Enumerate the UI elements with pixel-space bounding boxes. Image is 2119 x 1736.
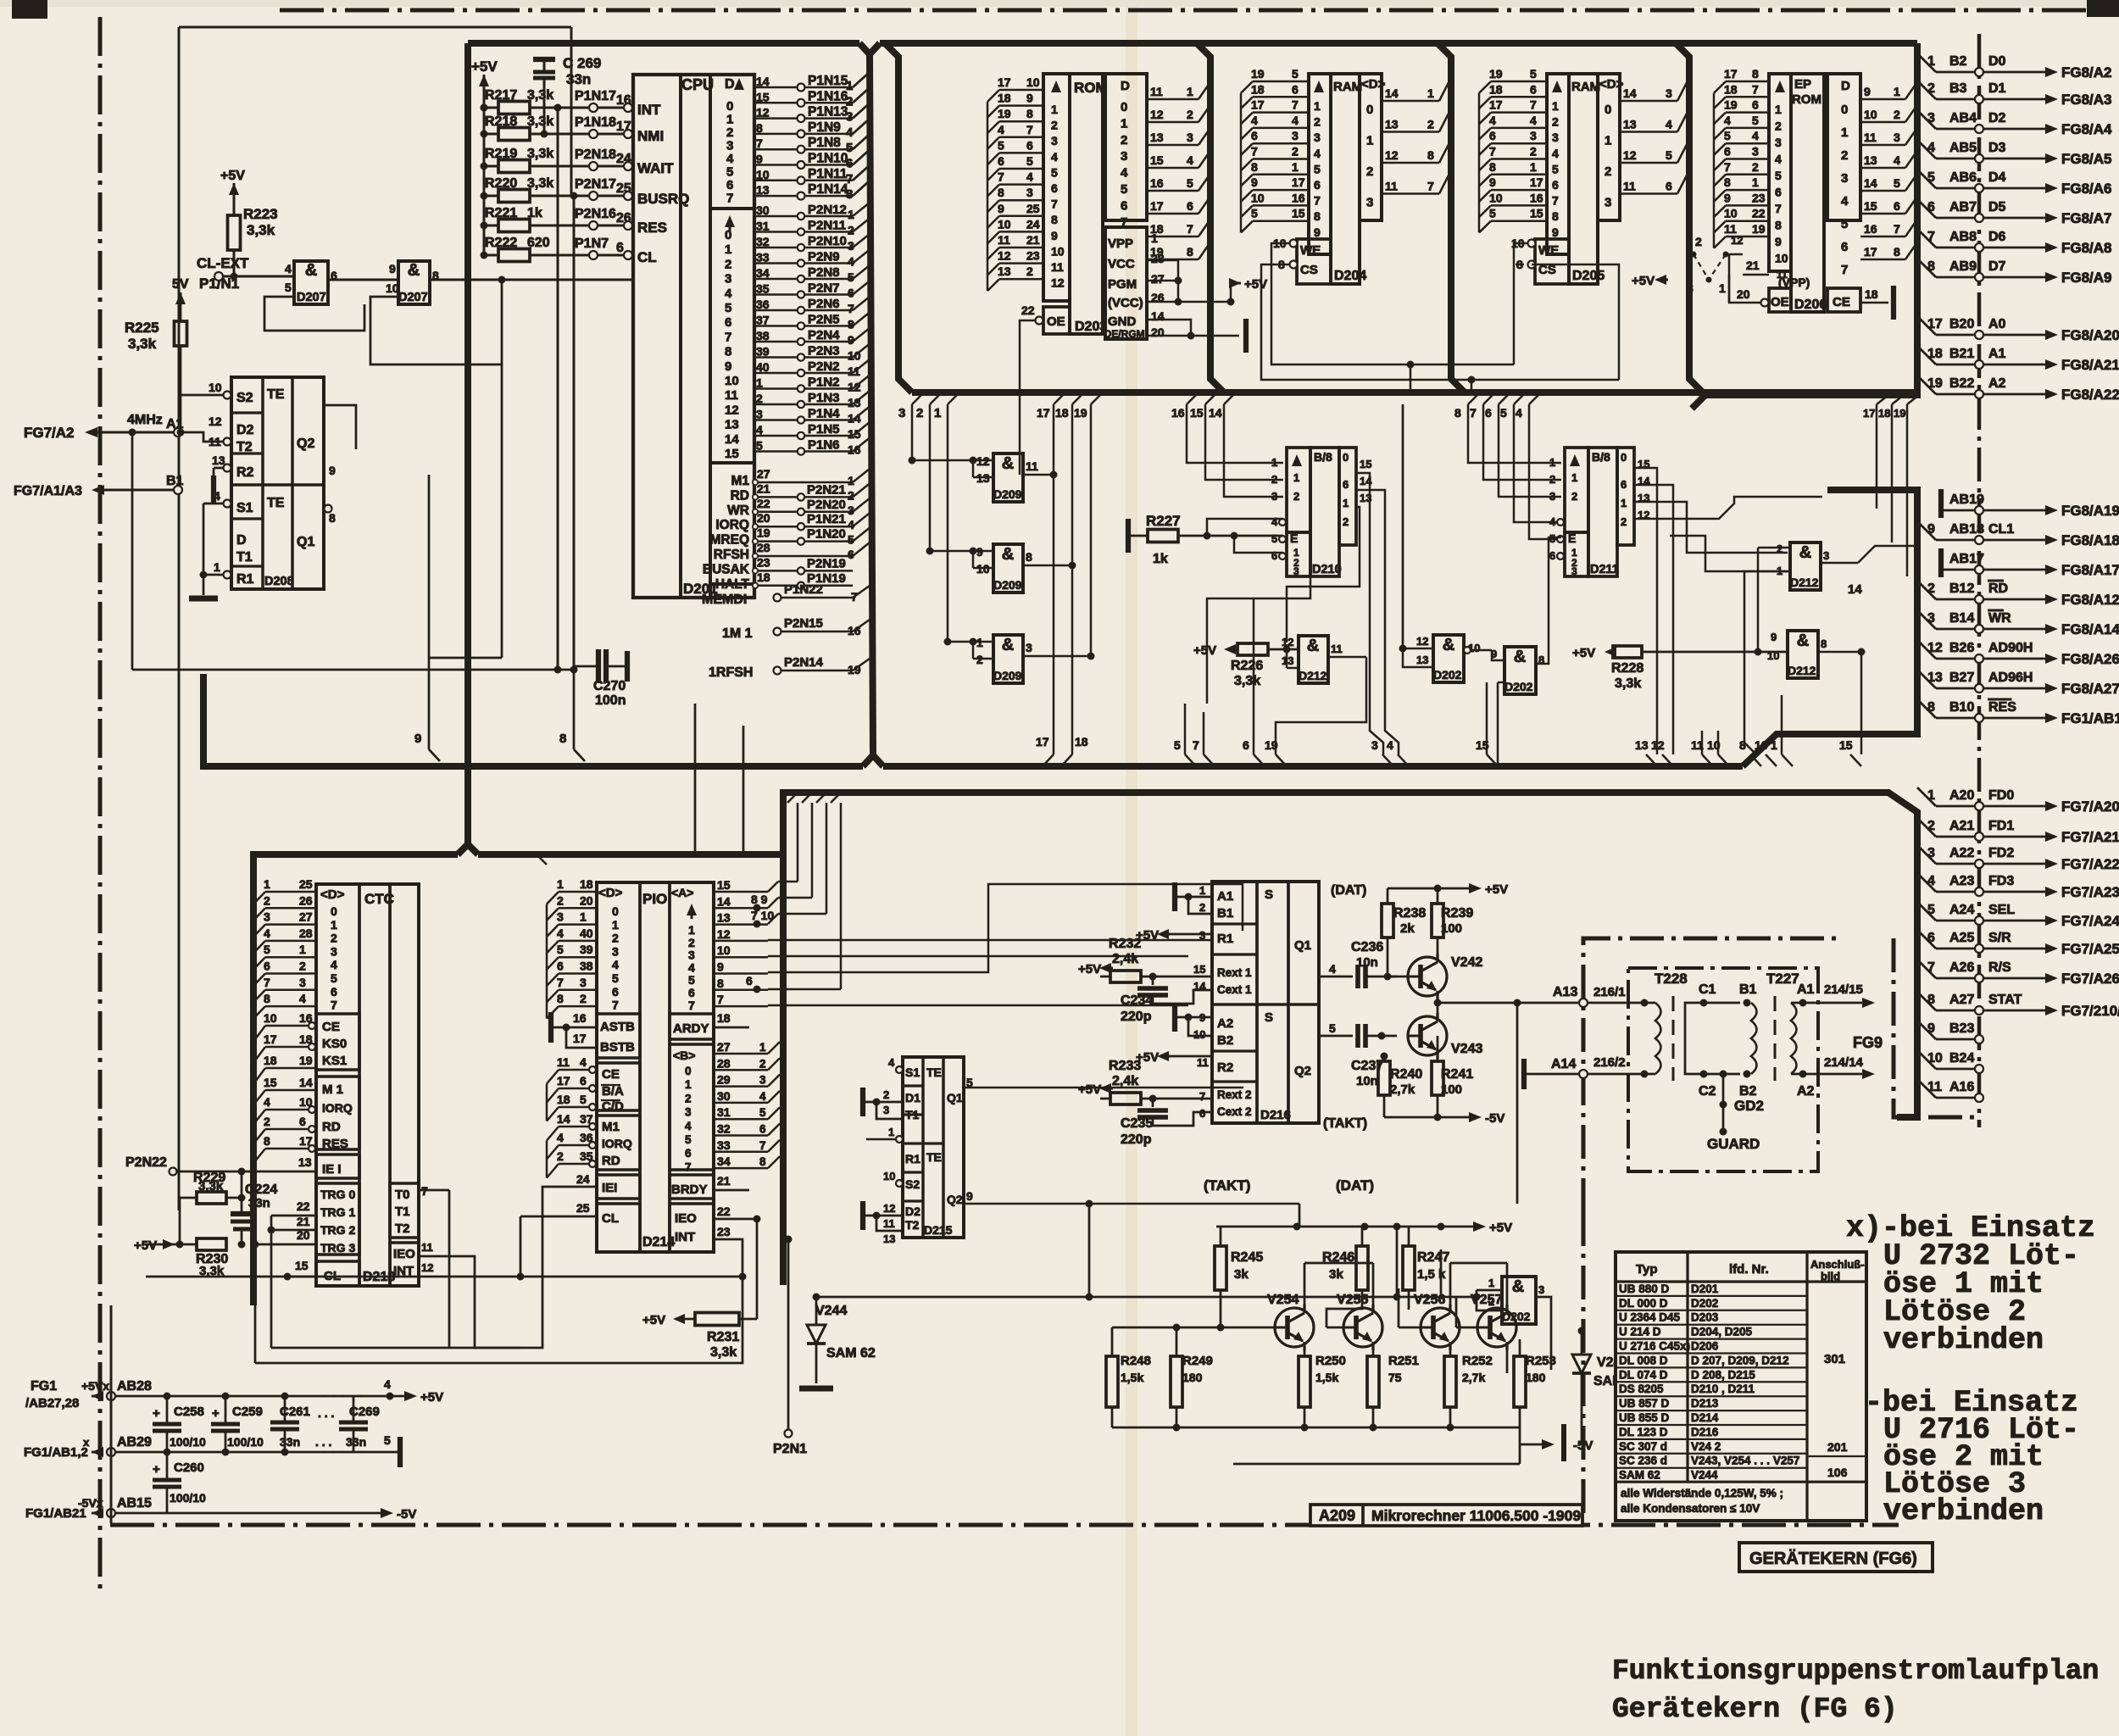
PIO M1 stubs: [559, 1126, 597, 1128]
wire D215 outputs: [964, 1087, 1243, 1089]
svg-text:4: 4: [1292, 114, 1299, 127]
svg-text:17: 17: [1530, 175, 1543, 189]
svg-text:1: 1: [1121, 116, 1127, 131]
svg-text:17: 17: [1292, 175, 1305, 189]
wire D214 CL drop: [520, 1216, 522, 1277]
svg-text:100n: 100n: [595, 693, 626, 708]
svg-text:FG8/A3: FG8/A3: [2061, 92, 2112, 108]
svg-text:alle Widerstände 0,125W, 5%: alle Widerstände 0,125W, 5% ;: [1621, 1487, 1783, 1500]
svg-text:75: 75: [1388, 1371, 1402, 1384]
svg-text:1: 1: [1927, 788, 1935, 803]
svg-text:2: 2: [1199, 901, 1205, 914]
svg-text:TE: TE: [926, 1150, 942, 1164]
svg-text:0: 0: [726, 99, 733, 114]
svg-text:FG8/A26: FG8/A26: [2061, 651, 2119, 667]
svg-text:11: 11: [998, 233, 1010, 247]
svg-text:13: 13: [1150, 131, 1164, 144]
svg-text:3: 3: [1605, 196, 1611, 210]
svg-text:T2: T2: [395, 1221, 410, 1236]
svg-text:1: 1: [685, 1078, 692, 1091]
svg-text:EP: EP: [1794, 77, 1811, 92]
svg-text:9: 9: [756, 153, 763, 166]
svg-text:4: 4: [1251, 114, 1258, 127]
svg-text:V244: V244: [1691, 1469, 1718, 1482]
svg-text:8: 8: [1552, 209, 1559, 223]
svg-text:6: 6: [1841, 240, 1848, 254]
svg-text:A2: A2: [1988, 376, 2006, 391]
svg-text:11: 11: [1026, 459, 1038, 473]
svg-text:20: 20: [580, 893, 593, 907]
svg-text:19: 19: [1894, 407, 1905, 420]
svg-text:22: 22: [757, 497, 770, 510]
capacitor C270: [574, 665, 596, 668]
wire D208 inputs: [182, 432, 224, 442]
svg-text:28: 28: [1151, 252, 1165, 265]
svg-text:4MHz: 4MHz: [127, 413, 163, 427]
svg-text:5: 5: [1500, 406, 1507, 420]
svg-text:A1: A1: [1797, 982, 1815, 997]
svg-text:5: 5: [580, 1093, 587, 1106]
svg-text:6: 6: [1621, 478, 1627, 491]
svg-text:2: 2: [1292, 145, 1299, 159]
svg-text:1: 1: [1552, 99, 1559, 113]
svg-text:11: 11: [1927, 1080, 1942, 1094]
svg-text:17: 17: [1150, 199, 1164, 213]
svg-text:R1: R1: [905, 1152, 920, 1166]
svg-text:3: 3: [1366, 196, 1373, 210]
EPROM D206 data stubs: [1860, 98, 1905, 101]
svg-text:0: 0: [685, 1065, 692, 1077]
svg-text:1: 1: [1571, 471, 1577, 484]
svg-text:U 214 D: U 214 D: [1619, 1326, 1661, 1338]
svg-text:13: 13: [298, 1155, 312, 1169]
svg-text:4: 4: [1666, 118, 1672, 131]
svg-text:15: 15: [264, 1076, 277, 1089]
svg-text:19: 19: [1724, 98, 1738, 112]
svg-text:B22: B22: [1949, 376, 1974, 391]
svg-text:9: 9: [1489, 175, 1496, 189]
svg-text:4: 4: [756, 423, 763, 437]
svg-text:FG8/A4: FG8/A4: [2061, 121, 2112, 137]
svg-text:6: 6: [580, 1074, 587, 1088]
svg-text:8: 8: [1314, 209, 1321, 223]
svg-text:-5V: -5V: [1573, 1438, 1593, 1453]
svg-text:D202: D202: [1691, 1297, 1718, 1310]
svg-text:D209: D209: [993, 578, 1022, 592]
svg-text:6: 6: [1552, 178, 1559, 192]
svg-text:Q1: Q1: [297, 535, 314, 549]
svg-text:M 1: M 1: [322, 1082, 343, 1097]
svg-text:30: 30: [717, 1089, 731, 1103]
svg-text:18: 18: [1489, 82, 1503, 96]
svg-text:1: 1: [1199, 884, 1205, 897]
svg-text:+5V: +5V: [1632, 274, 1655, 288]
svg-text:2: 2: [1314, 115, 1321, 129]
svg-text:8: 8: [1927, 700, 1935, 715]
svg-text:R250: R250: [1315, 1354, 1346, 1368]
svg-text:6: 6: [726, 178, 733, 192]
svg-text:2: 2: [759, 1057, 766, 1070]
svg-text:FG1/AB10: FG1/AB10: [2061, 710, 2119, 726]
svg-text:P2N1: P2N1: [773, 1442, 807, 1456]
wire D208 Q2 loop: [324, 405, 356, 449]
svg-text:D1: D1: [905, 1091, 920, 1104]
wire D209 a output: [1023, 474, 1054, 476]
wire misc risers from bus2: [787, 793, 798, 803]
svg-text:8: 8: [1251, 160, 1258, 174]
svg-text:10: 10: [883, 1170, 895, 1182]
svg-text:7: 7: [264, 976, 270, 989]
svg-text:D203: D203: [1075, 320, 1107, 334]
svg-text:8: 8: [756, 121, 763, 135]
wire P2N1: [785, 1430, 793, 1438]
svg-text:AD96H: AD96H: [1988, 670, 2033, 685]
svg-text:40: 40: [756, 360, 770, 374]
svg-text:TE: TE: [267, 496, 285, 510]
wire ROM GND pin: [1147, 320, 1191, 336]
svg-text:/AB27,28: /AB27,28: [25, 1396, 79, 1410]
svg-text:12: 12: [756, 106, 770, 120]
CTC CE KS box: [316, 1014, 359, 1070]
svg-text:5: 5: [759, 1106, 766, 1119]
wire output to A13: [1514, 999, 1521, 1007]
svg-text:AB19: AB19: [1949, 492, 1984, 507]
node B2 D0: [1917, 53, 1936, 72]
svg-text:D: D: [1121, 79, 1130, 93]
wire CPU bus spine: [870, 54, 873, 755]
svg-text:7: 7: [1724, 160, 1731, 174]
wire D209 b output: [1023, 565, 1072, 567]
CPU data port column: [710, 207, 754, 210]
svg-text:ROM: ROM: [1074, 80, 1108, 96]
svg-text:FD3: FD3: [1988, 874, 2014, 888]
svg-text:8: 8: [329, 511, 336, 525]
svg-text:3: 3: [1666, 86, 1672, 100]
svg-text:16: 16: [1292, 191, 1305, 204]
svg-text:+5V: +5V: [1489, 1221, 1512, 1235]
svg-text:&: &: [1002, 636, 1014, 654]
svg-text:INT: INT: [637, 102, 661, 118]
svg-text:P1N13: P1N13: [808, 105, 848, 120]
wire D210 outputs: [1356, 473, 1383, 754]
svg-text:V243, V254 . . . V257: V243, V254 . . . V257: [1691, 1455, 1799, 1467]
svg-text:RD: RD: [322, 1120, 341, 1134]
wire RAM D205 data bus riser: [1676, 43, 1703, 392]
svg-text:T2: T2: [905, 1218, 920, 1232]
svg-text:Cext 1: Cext 1: [1217, 983, 1252, 996]
svg-text:4: 4: [580, 1055, 587, 1069]
svg-text:D2: D2: [1988, 111, 2006, 125]
PIO CE box: [597, 1063, 640, 1110]
svg-text:3: 3: [1841, 171, 1848, 186]
svg-text:3: 3: [1199, 929, 1205, 942]
svg-text:CTC: CTC: [364, 891, 394, 907]
svg-text:3: 3: [1187, 131, 1193, 144]
svg-text:verbinden: verbinden: [1883, 1494, 2044, 1528]
svg-text:7: 7: [685, 1160, 692, 1173]
svg-text:Q2: Q2: [1294, 1064, 1311, 1078]
svg-text:RAM: RAM: [1333, 80, 1362, 94]
svg-text:P1N15: P1N15: [808, 74, 848, 88]
svg-text:1: 1: [1894, 85, 1900, 98]
node A25 S/R: [1917, 930, 1936, 949]
svg-text:14: 14: [1151, 309, 1165, 323]
svg-text:17: 17: [998, 75, 1011, 89]
wire vertical to bus1 node 9: [428, 475, 431, 749]
svg-text:+5V: +5V: [134, 1238, 157, 1253]
transistor V254: [1275, 1308, 1314, 1347]
svg-text:<B>: <B>: [673, 1049, 695, 1062]
svg-text:5: 5: [1752, 114, 1759, 127]
svg-text:FD1: FD1: [1988, 819, 2014, 833]
svg-text:B2: B2: [1217, 1033, 1233, 1048]
svg-text:9: 9: [1314, 225, 1321, 239]
wire D202c output: [1536, 1297, 1551, 1370]
svg-text:MEMDI: MEMDI: [702, 593, 747, 607]
svg-text:10: 10: [264, 1011, 277, 1025]
svg-text:11: 11: [1777, 269, 1788, 281]
svg-text:13: 13: [756, 183, 770, 197]
svg-text:14: 14: [756, 75, 770, 88]
svg-text:6: 6: [1243, 738, 1249, 752]
svg-text:7: 7: [1051, 198, 1058, 211]
svg-text:RD: RD: [1988, 581, 2008, 596]
svg-text:R231: R231: [707, 1330, 739, 1344]
wire PIO A outputs: [768, 882, 778, 892]
svg-text:-5V: -5V: [1485, 1111, 1504, 1126]
svg-text:1: 1: [1841, 125, 1848, 140]
svg-text:WR: WR: [1988, 611, 2011, 626]
+5V rail for drivers: [1216, 1226, 1480, 1228]
svg-text:A2: A2: [1797, 1084, 1815, 1099]
svg-text:100/10: 100/10: [170, 1435, 206, 1449]
svg-text:B2: B2: [1949, 54, 1967, 69]
svg-text:11: 11: [1051, 260, 1064, 274]
svg-text:P1N8: P1N8: [808, 136, 841, 150]
svg-text:AB29: AB29: [117, 1435, 152, 1449]
svg-text:P1N14: P1N14: [808, 182, 848, 197]
svg-text:8: 8: [759, 1155, 766, 1168]
node A21 FD1: [1917, 818, 1936, 837]
svg-text:P2N17: P2N17: [575, 177, 616, 192]
svg-text:10: 10: [1724, 207, 1738, 220]
svg-text:Q2: Q2: [297, 437, 314, 451]
wire pass-through verticals: [694, 766, 697, 854]
svg-text:6: 6: [1485, 406, 1492, 420]
svg-text:9: 9: [1775, 235, 1782, 248]
svg-text:P2N2: P2N2: [808, 359, 840, 374]
svg-text:14: 14: [725, 432, 739, 447]
svg-text:2: 2: [685, 1092, 692, 1104]
gate D202 a: [1433, 635, 1464, 682]
svg-text:3: 3: [1823, 549, 1829, 562]
svg-text:-5Vx: -5Vx: [78, 1496, 103, 1510]
svg-text:5: 5: [725, 301, 731, 315]
svg-text:AB8: AB8: [1949, 230, 1977, 244]
svg-text:A20: A20: [1949, 788, 1974, 803]
svg-text:201: 201: [1827, 1440, 1848, 1454]
svg-text:6: 6: [725, 315, 731, 330]
svg-text:17: 17: [1251, 98, 1265, 112]
svg-text:37: 37: [756, 314, 770, 327]
svg-text:+5V: +5V: [1193, 643, 1216, 658]
svg-text:1: 1: [1777, 565, 1783, 577]
svg-text:6: 6: [1314, 178, 1321, 192]
svg-text:&: &: [1443, 636, 1454, 654]
svg-text:&: &: [1799, 543, 1811, 562]
svg-text:15: 15: [1150, 153, 1164, 167]
svg-text:8: 8: [1427, 148, 1434, 162]
svg-text:106: 106: [1827, 1466, 1848, 1479]
svg-text:INT: INT: [675, 1230, 695, 1244]
svg-text:12: 12: [1927, 641, 1943, 655]
svg-text:SC 307 d: SC 307 d: [1619, 1440, 1667, 1453]
CTC TRG box: [316, 1183, 359, 1255]
svg-text:3: 3: [1051, 134, 1058, 147]
svg-text:TE: TE: [267, 387, 285, 402]
PIO M1 box: [597, 1116, 640, 1170]
svg-text:+5V: +5V: [1078, 1082, 1101, 1097]
svg-text:KS1: KS1: [322, 1054, 347, 1068]
svg-text:P1N6: P1N6: [808, 438, 840, 453]
svg-text:FG8/A19: FG8/A19: [2061, 503, 2119, 519]
svg-text:CE: CE: [602, 1067, 620, 1082]
svg-text:6: 6: [299, 1115, 306, 1128]
svg-text:2: 2: [264, 893, 270, 907]
svg-text:CS: CS: [1300, 263, 1318, 277]
svg-text:11: 11: [1150, 85, 1163, 98]
gate D212 a: [1299, 636, 1328, 683]
svg-text:2: 2: [1026, 264, 1033, 278]
svg-text:12: 12: [883, 1202, 895, 1215]
svg-text:38: 38: [580, 960, 593, 973]
svg-text:18: 18: [264, 1054, 277, 1067]
svg-text:R/S: R/S: [1988, 960, 2011, 975]
svg-text:FG7/A22: FG7/A22: [2061, 856, 2119, 872]
transformer inner dash-dot box: [1628, 968, 1818, 1171]
svg-text:2,7k: 2,7k: [1462, 1371, 1485, 1384]
svg-text:4: 4: [299, 992, 306, 1005]
svg-text:0: 0: [1121, 100, 1127, 114]
svg-text:33n: 33n: [280, 1435, 300, 1449]
svg-text:6: 6: [1251, 129, 1258, 142]
svg-text:7: 7: [688, 999, 695, 1012]
svg-text:D208: D208: [264, 575, 294, 588]
svg-text:216/1: 216/1: [1593, 985, 1626, 999]
svg-text:10n: 10n: [1356, 1074, 1378, 1088]
svg-text:P2N20: P2N20: [807, 498, 846, 512]
node 214/14: [1803, 1073, 1833, 1076]
svg-text:R245: R245: [1231, 1250, 1263, 1265]
wire bus1 to FG8 connector riser: [1743, 490, 1917, 766]
svg-text:8: 8: [1821, 637, 1827, 650]
svg-text:P2N22: P2N22: [125, 1155, 167, 1170]
svg-text:FG9: FG9: [1853, 1034, 1883, 1051]
svg-text:4: 4: [1752, 129, 1759, 142]
node B20 A0: [1917, 316, 1936, 335]
wire ladder verticals: [557, 108, 559, 670]
svg-text:D2: D2: [236, 423, 254, 437]
svg-text:23: 23: [757, 555, 770, 569]
svg-text:P2N12: P2N12: [808, 203, 847, 217]
svg-text:TE: TE: [926, 1066, 942, 1079]
svg-text:A1: A1: [1217, 889, 1233, 904]
svg-text:216/2: 216/2: [1593, 1055, 1626, 1070]
svg-text:D216: D216: [1691, 1426, 1719, 1438]
svg-text:verbinden: verbinden: [1883, 1323, 2044, 1357]
CTC IEO INT box: [390, 1243, 419, 1286]
svg-text:14: 14: [299, 1076, 313, 1089]
svg-text:&: &: [1797, 632, 1809, 650]
svg-text:FG8/A5: FG8/A5: [2061, 151, 2112, 167]
svg-text:R248: R248: [1121, 1354, 1151, 1368]
svg-text:5: 5: [384, 1433, 391, 1447]
svg-text:1: 1: [1366, 134, 1373, 148]
svg-text:5V: 5V: [172, 277, 189, 292]
svg-text:9: 9: [414, 732, 421, 746]
CPU D201 body: [633, 75, 754, 598]
svg-text:<D>: <D>: [320, 887, 345, 902]
wire V243 emitter: [1383, 1055, 1385, 1057]
svg-text:4: 4: [1775, 153, 1782, 166]
svg-text:&: &: [1002, 545, 1014, 564]
svg-text:(TAKT): (TAKT): [1204, 1177, 1250, 1193]
svg-text:A25: A25: [1949, 931, 1974, 945]
svg-text:P2N8: P2N8: [808, 265, 840, 280]
svg-text:AB28: AB28: [117, 1379, 152, 1394]
svg-text:B27: B27: [1949, 670, 1974, 685]
RAM D205 address stubs: [1491, 81, 1547, 83]
wire ROM power to +5V: [1147, 260, 1178, 302]
svg-text:WAIT: WAIT: [637, 160, 674, 176]
svg-text:0: 0: [1841, 103, 1848, 117]
svg-text:6: 6: [1187, 199, 1193, 213]
svg-text:2: 2: [612, 932, 619, 945]
node A27 STAT: [1917, 992, 1936, 1010]
svg-text:3: 3: [612, 944, 619, 958]
transformer core dashes: [1672, 996, 1675, 1081]
svg-text:7: 7: [1292, 98, 1299, 112]
svg-text:P1N21: P1N21: [807, 512, 846, 526]
svg-text:4: 4: [759, 1090, 766, 1103]
svg-text:24: 24: [1026, 217, 1040, 231]
svg-text:14: 14: [1623, 86, 1637, 100]
svg-text:P1N5: P1N5: [808, 422, 840, 437]
svg-text:4: 4: [285, 262, 292, 275]
svg-text:12: 12: [1385, 148, 1399, 162]
svg-text:2: 2: [1366, 164, 1373, 179]
node B3 D1: [1917, 81, 1936, 99]
svg-text:C260: C260: [174, 1461, 204, 1475]
svg-text:OE: OE: [1771, 295, 1789, 309]
svg-text:7: 7: [1199, 1090, 1205, 1103]
wire -5V row: [1233, 1463, 1520, 1466]
svg-text:6: 6: [616, 241, 624, 255]
wire left bus vertical: [458, 43, 468, 854]
svg-text:2: 2: [299, 960, 306, 973]
gate D212 c: [1788, 631, 1818, 678]
svg-text:FG7/A1/A3: FG7/A1/A3: [14, 484, 82, 498]
svg-text:A1: A1: [1988, 347, 2006, 361]
svg-text:7: 7: [1894, 222, 1900, 236]
svg-text:16: 16: [1755, 738, 1768, 752]
FG9 dash-dot enclosure: [1583, 938, 1839, 1212]
PIO CL: [597, 1204, 640, 1252]
svg-text:8: 8: [1752, 67, 1759, 81]
svg-text:12: 12: [1282, 636, 1293, 648]
svg-text:2: 2: [1894, 108, 1900, 121]
svg-text:4: 4: [685, 1120, 692, 1132]
